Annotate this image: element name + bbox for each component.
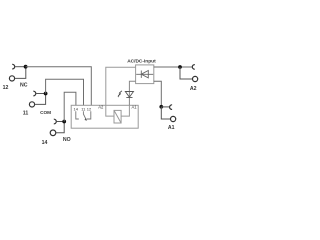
svg-text:A1: A1 xyxy=(132,105,138,110)
svg-text:COM: COM xyxy=(40,110,51,115)
terminal A2 socket circle xyxy=(193,76,198,81)
relay coil K1 xyxy=(114,110,121,123)
svg-text:12: 12 xyxy=(87,107,92,112)
svg-text:A1: A1 xyxy=(168,125,175,131)
svg-text:NO: NO xyxy=(63,137,71,143)
svg-text:NC: NC xyxy=(20,83,28,89)
svg-text:11: 11 xyxy=(81,107,86,112)
wire 14 arc to junction xyxy=(56,121,64,123)
node A1 junction xyxy=(159,105,163,109)
wire box right-bottom to A1 terminal xyxy=(154,81,162,107)
terminal 11 plug arc xyxy=(33,91,36,96)
node 12 junction xyxy=(24,65,28,69)
node A2 junction xyxy=(178,65,182,69)
svg-text:14: 14 xyxy=(42,140,48,146)
wire net 14 to relay pin 14 xyxy=(64,92,76,121)
wire A1 junction to socket xyxy=(161,107,170,119)
svg-text:A2: A2 xyxy=(98,104,104,109)
wire A2 junction to socket xyxy=(180,67,192,79)
terminal A1 socket circle xyxy=(171,116,176,121)
terminal 14 socket circle xyxy=(50,130,56,136)
wire 11 circle to junction xyxy=(35,94,46,105)
wire 12 circle to junction xyxy=(15,67,26,79)
wire box left-bottom to LED branch xyxy=(129,81,135,105)
terminal A1 plug arc xyxy=(170,105,173,110)
LED arrow 2 xyxy=(118,94,121,96)
node 14 junction xyxy=(62,120,66,124)
LED D2 cathode bar xyxy=(126,97,132,99)
contact fixed seat pin 12 xyxy=(87,111,91,119)
svg-text:A2: A2 xyxy=(190,86,197,92)
svg-text:11: 11 xyxy=(23,110,29,116)
wire net 12 to relay pin 12 xyxy=(26,67,92,106)
terminal 12 plug arc xyxy=(12,64,15,69)
relay box U1 xyxy=(71,105,138,128)
diode D1 wire xyxy=(136,73,153,75)
terminal 12 socket circle xyxy=(9,76,14,81)
wire 11 arc to junction xyxy=(36,93,46,95)
contact fixed seat pin 14 xyxy=(76,111,79,119)
wire coil pin A2 xyxy=(106,105,114,116)
AC/DC input box U2 xyxy=(136,65,154,84)
wire box right-top to A2 terminal xyxy=(154,66,193,68)
diode D1 triangle xyxy=(141,71,148,78)
relay coil diagonal xyxy=(114,110,121,123)
wire box left-top to A2 rail xyxy=(106,67,136,105)
svg-text:14: 14 xyxy=(74,107,79,112)
svg-text:AC/DC-Input: AC/DC-Input xyxy=(127,58,156,64)
wire 14 circle to junction xyxy=(56,122,64,133)
LED arrow 1 xyxy=(119,91,122,93)
svg-text:12: 12 xyxy=(3,85,9,91)
terminal 11 socket circle xyxy=(29,102,34,107)
contact arrow tip xyxy=(85,118,88,121)
wire coil pin A1 xyxy=(121,105,129,116)
wire net 11 to relay pin 11 xyxy=(46,79,84,105)
terminal 14 plug arc xyxy=(54,119,57,124)
diode D1 cathode bar xyxy=(140,71,142,78)
wire 12 arc to junction xyxy=(15,66,26,68)
node 11 junction xyxy=(44,92,48,96)
LED D2 triangle xyxy=(125,92,133,98)
contact movable pin 11 xyxy=(83,111,86,120)
wire A1 junction to arc xyxy=(161,106,169,108)
terminal A2 plug arc xyxy=(192,65,195,70)
